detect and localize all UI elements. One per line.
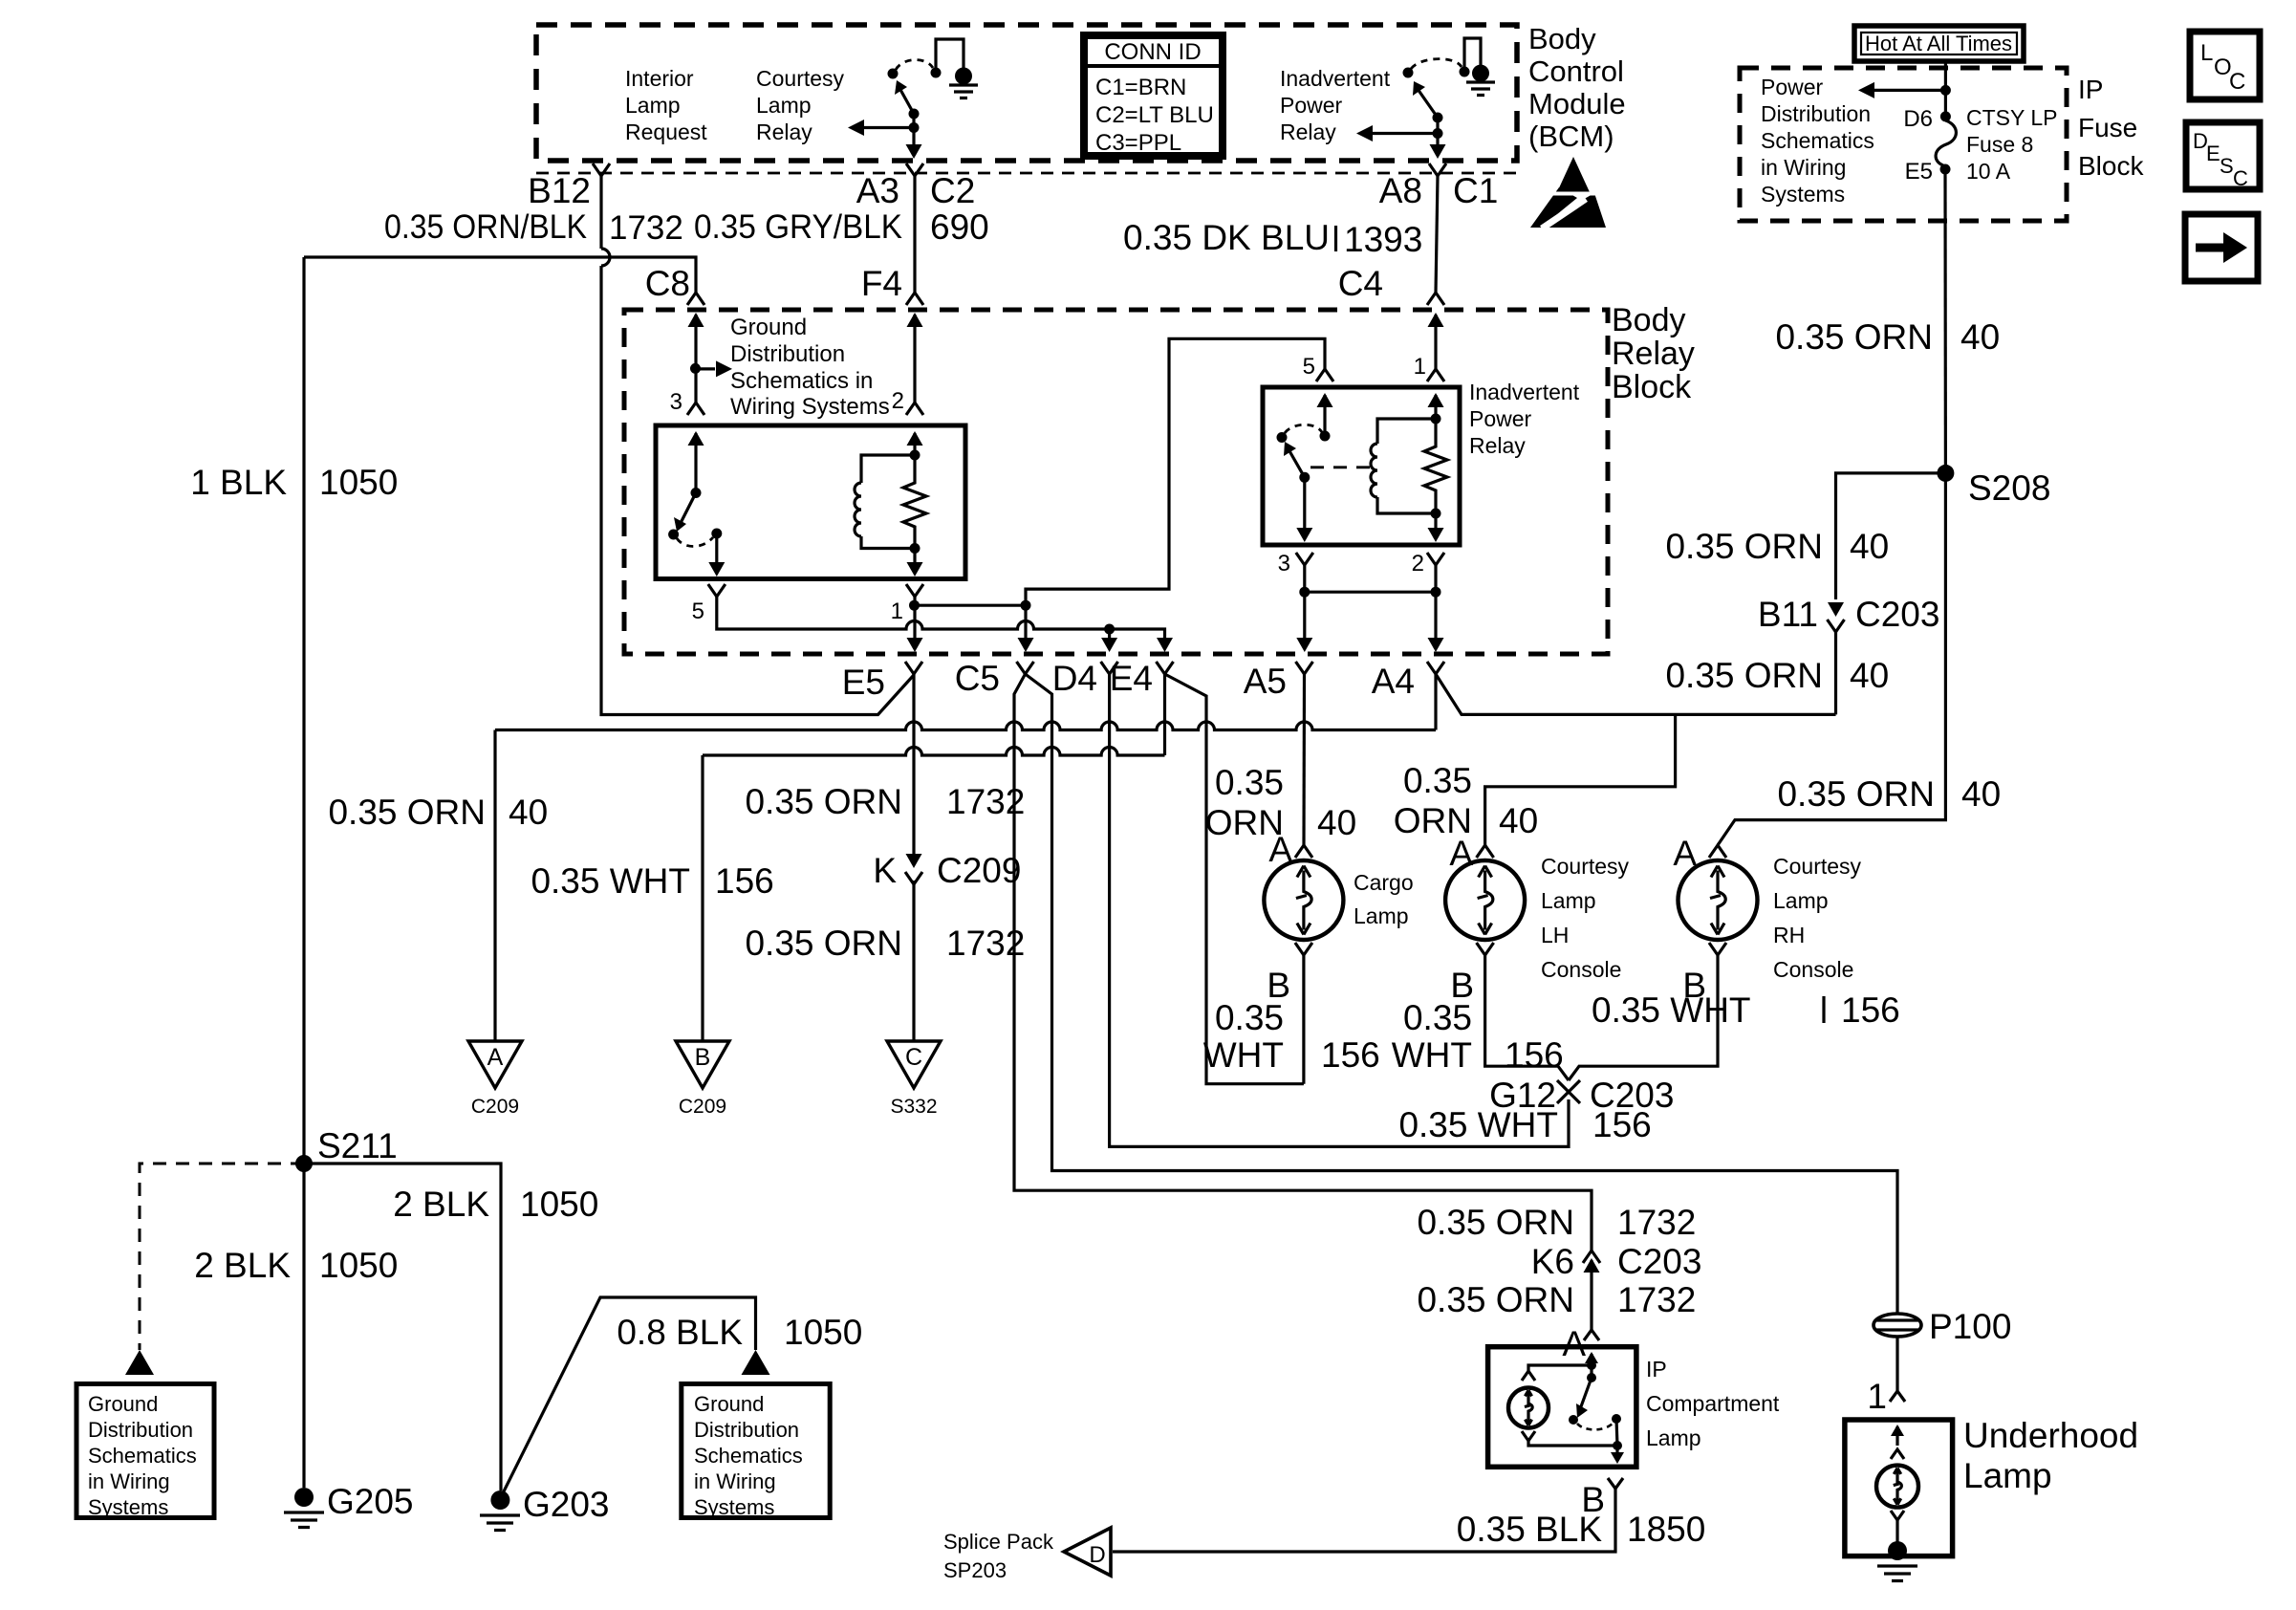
svg-text:Schematics: Schematics <box>694 1444 803 1468</box>
wire S208 down to courtesy lamps <box>1718 473 1945 845</box>
svg-text:Ground: Ground <box>88 1392 158 1416</box>
coil feed <box>913 433 916 455</box>
svg-text:C209: C209 <box>471 1096 519 1118</box>
svg-text:B12: B12 <box>528 171 591 210</box>
to pin 1 <box>913 549 916 572</box>
connector C5 <box>1017 662 1034 674</box>
connector F4 <box>906 293 923 305</box>
svg-text:40: 40 <box>1850 656 1889 695</box>
svg-text:in Wiring: in Wiring <box>694 1469 776 1493</box>
wire pin1 to C5/inadvertent pin5 <box>913 597 916 648</box>
svg-text:5: 5 <box>692 598 704 624</box>
A5 exit arrow <box>1296 638 1312 652</box>
coil/resistor junction (inadvertent) <box>1431 509 1441 519</box>
svg-text:156: 156 <box>715 861 774 901</box>
svg-text:0.35: 0.35 <box>1403 761 1472 800</box>
svg-text:Fuse 8: Fuse 8 <box>1966 132 2033 157</box>
svg-text:E: E <box>2206 141 2220 165</box>
svg-text:0.35 ORN: 0.35 ORN <box>1665 527 1823 566</box>
pin 5 arrow <box>1317 393 1333 407</box>
svg-text:Relay: Relay <box>1280 120 1336 144</box>
svg-text:Schematics: Schematics <box>1761 128 1874 153</box>
wire E5 branch to B12 (diagonal already drawn) and down to K C209 <box>912 674 915 1041</box>
pin 1 feed <box>1434 395 1437 419</box>
arrow to Ground Distribution Schematics <box>696 367 716 370</box>
wire down to splice A <box>493 730 496 1042</box>
svg-text:Compartment: Compartment <box>1646 1391 1780 1416</box>
IP Compartment Lamp box <box>1488 1347 1636 1468</box>
svg-text:40: 40 <box>1499 801 1538 840</box>
svg-text:C1: C1 <box>1453 171 1498 210</box>
svg-text:C: C <box>2233 166 2248 190</box>
svg-text:D6: D6 <box>1903 106 1933 132</box>
relay pin 3 connector <box>687 402 704 415</box>
svg-text:A8: A8 <box>1379 171 1422 210</box>
in-line connector G12 C203 <box>1557 1080 1580 1111</box>
wire F4 to relay pin 2 <box>913 315 916 402</box>
to pin 2 <box>1434 513 1437 536</box>
IP lamp internals <box>1522 1352 1598 1381</box>
IP lamp bulb <box>1508 1388 1549 1428</box>
svg-text:D: D <box>1089 1542 1105 1568</box>
svg-text:K: K <box>873 851 897 890</box>
switch to pin 5 <box>715 533 718 571</box>
svg-text:IP: IP <box>1646 1357 1667 1382</box>
connector A4 wire/junction <box>1434 674 1437 730</box>
svg-text:0.35 ORN: 0.35 ORN <box>1665 656 1823 695</box>
svg-text:Schematics in: Schematics in <box>730 368 873 394</box>
reference triangle (right) <box>742 1350 770 1375</box>
connector cargo lamp B <box>1295 943 1312 955</box>
connector A5 <box>1296 662 1313 674</box>
courtesy lamp relay driver symbol (inside BCM) <box>848 39 978 159</box>
Courtesy Lamp Relay box <box>656 425 965 579</box>
svg-text:Systems: Systems <box>1761 182 1845 207</box>
svg-text:40: 40 <box>1850 527 1889 566</box>
in-line connector K6 C203 <box>1583 1251 1600 1273</box>
CONN ID box <box>1084 35 1223 156</box>
svg-text:S332: S332 <box>890 1096 937 1118</box>
svg-text:Block: Block <box>1612 369 1692 405</box>
Body Relay Block dashed box <box>624 310 1608 654</box>
svg-text:SP203: SP203 <box>943 1558 1007 1582</box>
svg-text:Power: Power <box>1280 93 1343 118</box>
Hot At All Times box <box>1854 26 2024 61</box>
wire 0.35 ORN 40 to C209-A : H1 <box>495 722 1436 730</box>
svg-text:A4: A4 <box>1372 662 1415 701</box>
switch feed <box>694 433 697 492</box>
C5 exit arrow <box>1018 638 1034 652</box>
svg-text:Wiring Systems: Wiring Systems <box>730 394 890 420</box>
wire pin 5 to D4/E4 <box>717 597 1110 629</box>
svg-text:Cargo: Cargo <box>1354 870 1414 895</box>
svg-text:3: 3 <box>1278 551 1290 577</box>
svg-text:1850: 1850 <box>1627 1510 1705 1549</box>
connector A4 <box>1427 662 1444 674</box>
ground G203 <box>480 1490 520 1531</box>
svg-text:Ground: Ground <box>694 1392 764 1416</box>
svg-text:C2=LT BLU: C2=LT BLU <box>1095 102 1214 128</box>
connector B12 <box>593 163 610 176</box>
svg-text:WHT: WHT <box>1392 1035 1472 1075</box>
courtesy relay coil <box>855 450 921 549</box>
wire B11 to A4 run <box>1834 632 1837 714</box>
svg-text:0.35 ORN: 0.35 ORN <box>1775 317 1933 357</box>
relay pin 1 connector <box>1427 369 1444 381</box>
svg-text:1393: 1393 <box>1344 220 1422 259</box>
svg-text:0.35 ORN: 0.35 ORN <box>1777 774 1935 814</box>
svg-text:B: B <box>695 1044 711 1071</box>
svg-text:Lamp: Lamp <box>1963 1456 2052 1495</box>
switch to pin 3 <box>1303 477 1306 536</box>
svg-text:40: 40 <box>1961 774 2001 814</box>
relay pin 3 connector <box>1296 553 1313 565</box>
wire 1732 from B12 down (hops ground wire) <box>601 176 914 715</box>
svg-text:0.35: 0.35 <box>1215 998 1284 1037</box>
courtesy lamp LH console bulb <box>1445 860 1525 940</box>
connector cargo lamp A <box>1295 845 1312 858</box>
connector A5 wire to cargo lamp <box>1302 674 1306 845</box>
svg-text:C8: C8 <box>645 264 690 303</box>
relay pin 2 connector <box>906 402 923 415</box>
svg-text:0.35 GRY/BLK: 0.35 GRY/BLK <box>694 208 902 246</box>
Ground Distribution box (left) <box>76 1384 214 1520</box>
connector D4 wire to G12 return <box>1110 674 1569 1146</box>
svg-text:1050: 1050 <box>319 1246 398 1285</box>
svg-text:40: 40 <box>1317 803 1356 842</box>
svg-text:C: C <box>2229 69 2245 95</box>
svg-text:Console: Console <box>1541 957 1621 982</box>
splice S332 triangle C <box>887 1041 941 1088</box>
wire C8 to relay pin 3 <box>694 315 697 402</box>
svg-text:S: S <box>2220 154 2234 178</box>
svg-text:C5: C5 <box>955 659 1000 698</box>
wire 0.35 ORN 40 fuse to S208 <box>1943 169 1947 473</box>
svg-text:D4: D4 <box>1052 659 1097 698</box>
svg-text:Lamp: Lamp <box>1773 888 1829 913</box>
pin 1 junction <box>909 600 920 611</box>
svg-text:CTSY LP: CTSY LP <box>1966 105 2057 130</box>
relay pin 2 connector <box>1427 553 1444 565</box>
svg-text:0.8 BLK: 0.8 BLK <box>617 1313 743 1352</box>
junction at fuse feed <box>1940 85 1951 96</box>
svg-text:0.35 ORN: 0.35 ORN <box>1417 1203 1574 1242</box>
connector E4 <box>1157 662 1174 674</box>
svg-text:1050: 1050 <box>520 1185 598 1224</box>
BCM connector boundary thin dashed line <box>536 172 1517 175</box>
Underhood Lamp box <box>1845 1420 1953 1556</box>
connector C4 <box>1427 293 1444 305</box>
in-line connector B11 C203 <box>1828 602 1845 632</box>
svg-text:Control: Control <box>1528 54 1624 88</box>
junction to ground distribution reference <box>690 363 701 374</box>
svg-text:Console: Console <box>1773 957 1853 982</box>
svg-text:Courtesy: Courtesy <box>1541 854 1630 879</box>
svg-text:0.35 WHT: 0.35 WHT <box>1592 990 1751 1030</box>
svg-text:Systems: Systems <box>694 1495 774 1519</box>
svg-text:S208: S208 <box>1968 468 2050 508</box>
svg-text:A: A <box>487 1044 504 1071</box>
svg-text:5: 5 <box>1303 354 1315 380</box>
svg-text:A3: A3 <box>856 171 899 210</box>
inadvertent power relay driver symbol (inside BCM) <box>1356 38 1495 159</box>
svg-text:Distribution: Distribution <box>730 341 845 367</box>
svg-text:0.35 ORN: 0.35 ORN <box>745 924 902 963</box>
svg-text:C209: C209 <box>679 1096 726 1118</box>
connector C8 <box>687 293 704 305</box>
pin 1 arrow <box>1428 393 1444 407</box>
svg-text:IP: IP <box>2078 75 2103 104</box>
svg-text:C209: C209 <box>937 851 1021 890</box>
svg-text:Lamp: Lamp <box>1646 1425 1701 1450</box>
courtesy lamp RH console bulb <box>1679 860 1758 940</box>
connector LH console lamp A <box>1477 845 1494 858</box>
svg-text:Lamp: Lamp <box>756 93 812 118</box>
courtesy relay resistor <box>903 455 926 549</box>
svg-text:2 BLK: 2 BLK <box>194 1246 291 1285</box>
svg-text:0.35: 0.35 <box>1215 763 1284 802</box>
svg-text:Fuse: Fuse <box>2078 113 2137 142</box>
svg-text:0.35 ORN: 0.35 ORN <box>328 793 486 832</box>
svg-text:WHT: WHT <box>1203 1035 1284 1075</box>
splice C209 triangle A <box>468 1041 522 1088</box>
courtesy relay switch <box>668 488 722 547</box>
ground G205 <box>284 1488 324 1528</box>
svg-text:CONN ID: CONN ID <box>1104 39 1201 65</box>
E4 exit arrow <box>1157 638 1173 652</box>
connector E4 split wires <box>1163 674 1166 755</box>
ESD sensitive device symbol <box>1527 157 1614 228</box>
svg-text:1050: 1050 <box>319 463 398 502</box>
cargo lamp bulb <box>1264 860 1343 940</box>
pin 3 arrow <box>688 431 704 446</box>
Ground Distribution box (right) <box>682 1384 830 1520</box>
pin 5 to switch contact <box>1323 395 1326 436</box>
inadvertent relay coil <box>1371 414 1441 514</box>
connector RH console lamp A <box>1709 845 1726 858</box>
ground wire 1 BLK 1050 tee <box>304 257 696 293</box>
svg-text:2: 2 <box>892 388 904 414</box>
svg-text:Systems: Systems <box>88 1495 168 1519</box>
connector E5 <box>905 662 922 674</box>
svg-text:A: A <box>1562 1324 1586 1363</box>
wire S211 to G203 <box>304 1164 501 1490</box>
svg-text:E5: E5 <box>842 663 885 702</box>
connector C5 split wires <box>1014 674 1592 1251</box>
svg-text:0.35 ORN/BLK: 0.35 ORN/BLK <box>384 208 587 246</box>
wire S208 to B11 C203 <box>1836 473 1946 599</box>
svg-text:S211: S211 <box>317 1126 398 1165</box>
A4 exit arrow <box>1428 638 1444 652</box>
connector LH console lamp B <box>1477 943 1494 955</box>
wire S211 to G205 <box>302 1164 305 1488</box>
wire from Hot At All Times to fuse <box>1944 61 1947 116</box>
svg-text:0.35: 0.35 <box>1403 998 1472 1037</box>
svg-text:Interior: Interior <box>625 66 694 91</box>
svg-text:C203: C203 <box>1617 1242 1701 1281</box>
svg-text:10 A: 10 A <box>1966 159 2011 184</box>
wire to E5/C5 exits <box>1024 605 1027 648</box>
splice S211 <box>295 1155 313 1172</box>
svg-text:156: 156 <box>1841 990 1900 1030</box>
svg-text:Ground: Ground <box>730 315 807 340</box>
svg-text:G205: G205 <box>327 1482 414 1521</box>
connector IP lamp B <box>1608 1478 1623 1489</box>
wire C4 to relay pin 1 <box>1434 315 1437 369</box>
coil/resistor junction <box>910 543 921 554</box>
svg-text:Splice Pack: Splice Pack <box>943 1530 1054 1554</box>
svg-text:Lamp: Lamp <box>1541 888 1596 913</box>
svg-text:Lamp: Lamp <box>1354 903 1409 928</box>
svg-text:156: 156 <box>1592 1105 1652 1144</box>
relay coupling dashed line <box>1310 466 1371 468</box>
connector IP lamp A <box>1584 1330 1599 1340</box>
svg-text:Relay: Relay <box>1469 433 1526 458</box>
IP lamp switch <box>1569 1373 1624 1464</box>
svg-text:Courtesy: Courtesy <box>756 66 845 91</box>
connector underhood lamp 1 <box>1890 1391 1905 1402</box>
svg-text:C: C <box>905 1044 922 1071</box>
svg-text:L: L <box>2200 40 2213 66</box>
wire 0.8 BLK 1050 to ground distribution <box>502 1297 756 1495</box>
pins 3-2 tie wire <box>1303 565 1306 648</box>
svg-text:156: 156 <box>1321 1035 1380 1075</box>
svg-text:690: 690 <box>930 207 989 247</box>
wire 1393 C1 to C4 <box>1436 176 1438 293</box>
svg-text:C1=BRN: C1=BRN <box>1095 75 1186 100</box>
RH console B wire <box>1569 955 1718 1080</box>
svg-text:Courtesy: Courtesy <box>1773 854 1862 879</box>
svg-text:0.35 BLK: 0.35 BLK <box>1457 1510 1603 1549</box>
relay pin 5 connector <box>1316 369 1333 381</box>
DESC reference box <box>2186 122 2260 190</box>
E5 exit arrow <box>907 638 923 652</box>
svg-text:1732: 1732 <box>1617 1280 1696 1319</box>
LH console B wire <box>1485 955 1569 1080</box>
svg-text:Distribution: Distribution <box>88 1418 193 1442</box>
svg-text:Lamp: Lamp <box>625 93 681 118</box>
svg-text:Power: Power <box>1761 75 1824 99</box>
svg-text:Block: Block <box>2078 151 2144 181</box>
wire down to splice B <box>701 755 704 1041</box>
svg-text:Inadvertent: Inadvertent <box>1469 380 1580 404</box>
svg-text:Schematics: Schematics <box>88 1444 197 1468</box>
reference triangle (left) <box>125 1350 154 1375</box>
entry arrow C4 <box>1428 313 1444 327</box>
svg-text:Relay: Relay <box>756 120 812 144</box>
svg-text:Distribution: Distribution <box>1761 101 1871 126</box>
underhood lamp bulb <box>1876 1466 1918 1508</box>
connector D4 <box>1101 662 1118 674</box>
svg-text:Module: Module <box>1528 87 1626 120</box>
wire 0.35 WHT 156 E4 to C209-B : H2 <box>703 748 1165 756</box>
svg-text:Power: Power <box>1469 406 1532 431</box>
in-line connector K C209 <box>905 854 922 884</box>
svg-text:B11: B11 <box>1758 595 1818 634</box>
svg-text:G203: G203 <box>523 1485 610 1524</box>
svg-text:A5: A5 <box>1244 662 1287 701</box>
svg-text:Body: Body <box>1528 22 1596 55</box>
svg-text:LH: LH <box>1541 923 1569 947</box>
splice pack SP203 triangle D <box>1064 1528 1111 1576</box>
svg-text:1: 1 <box>1414 354 1426 380</box>
svg-text:Request: Request <box>625 120 707 144</box>
D4 exit arrow <box>1101 638 1117 652</box>
relay pin 5 connector <box>708 584 726 597</box>
svg-text:Body: Body <box>1612 302 1686 338</box>
svg-text:156: 156 <box>1505 1035 1564 1075</box>
grommet P100 <box>1874 1314 1921 1337</box>
pin 2 arrow <box>907 431 923 446</box>
wire 690 A3 to F4 <box>913 176 916 293</box>
C5 branch junction <box>1021 600 1031 611</box>
svg-text:0.35 ORN: 0.35 ORN <box>1417 1280 1574 1319</box>
svg-text:Distribution: Distribution <box>694 1418 799 1442</box>
svg-text:40: 40 <box>509 793 548 832</box>
wire K6 to IP lamp A <box>1590 1260 1592 1330</box>
svg-text:E5: E5 <box>1905 159 1933 185</box>
next page arrow box <box>2185 214 2258 281</box>
svg-text:C2: C2 <box>930 171 975 210</box>
svg-text:1732: 1732 <box>609 209 683 247</box>
fuse CTSY LP Fuse 8 10 A <box>1936 111 1956 174</box>
svg-text:1732: 1732 <box>1617 1203 1696 1242</box>
svg-text:40: 40 <box>1960 317 2000 357</box>
svg-text:F4: F4 <box>861 264 902 303</box>
svg-text:3: 3 <box>670 389 682 415</box>
svg-text:in Wiring: in Wiring <box>88 1469 170 1493</box>
svg-text:Inadvertent: Inadvertent <box>1280 66 1391 91</box>
connector A3 C2 <box>906 163 923 176</box>
svg-text:E4: E4 <box>1110 659 1153 698</box>
svg-text:Relay: Relay <box>1612 336 1695 372</box>
svg-text:K6: K6 <box>1531 1242 1574 1281</box>
Body Control Module dashed box <box>536 25 1517 161</box>
D4 branch junction <box>1104 624 1115 635</box>
IP fuse block dashed box <box>1740 68 2067 221</box>
underhood lamp internals <box>1891 1425 1904 1459</box>
svg-text:C203: C203 <box>1855 595 1939 634</box>
connector A8 C1 <box>1429 163 1446 176</box>
wire P100 to underhood lamp <box>1895 1337 1898 1391</box>
svg-text:in Wiring: in Wiring <box>1761 155 1846 180</box>
LOC reference box <box>2190 32 2260 99</box>
svg-text:(BCM): (BCM) <box>1528 120 1614 153</box>
svg-text:0.35 DK BLU: 0.35 DK BLU <box>1123 218 1330 257</box>
dashed reference wire from S211 <box>140 1164 304 1350</box>
entry arrow F4 <box>907 313 923 327</box>
relay pin 1 connector <box>906 584 923 597</box>
svg-text:2: 2 <box>1412 551 1424 577</box>
svg-text:Hot At All Times: Hot At All Times <box>1865 32 2012 55</box>
svg-text:1050: 1050 <box>784 1313 862 1352</box>
splice S208 <box>1937 465 1954 482</box>
svg-text:1: 1 <box>1867 1377 1887 1416</box>
svg-text:1 BLK: 1 BLK <box>190 463 287 502</box>
underhood lamp ground <box>1877 1541 1917 1581</box>
wire LH console lamp feed <box>1485 714 1676 845</box>
wire 0.35 BLK 1850 <box>1113 1489 1615 1552</box>
svg-text:Underhood: Underhood <box>1963 1416 2138 1455</box>
svg-text:P100: P100 <box>1929 1307 2011 1346</box>
inadvertent relay switch <box>1277 424 1331 483</box>
svg-text:RH: RH <box>1773 923 1805 947</box>
arrow to power distribution <box>1874 89 1945 92</box>
inadvertent relay resistor <box>1424 419 1447 513</box>
splice C209 triangle B <box>676 1041 729 1088</box>
svg-text:0.35 WHT: 0.35 WHT <box>1398 1105 1558 1144</box>
entry arrow C8 <box>688 313 704 327</box>
